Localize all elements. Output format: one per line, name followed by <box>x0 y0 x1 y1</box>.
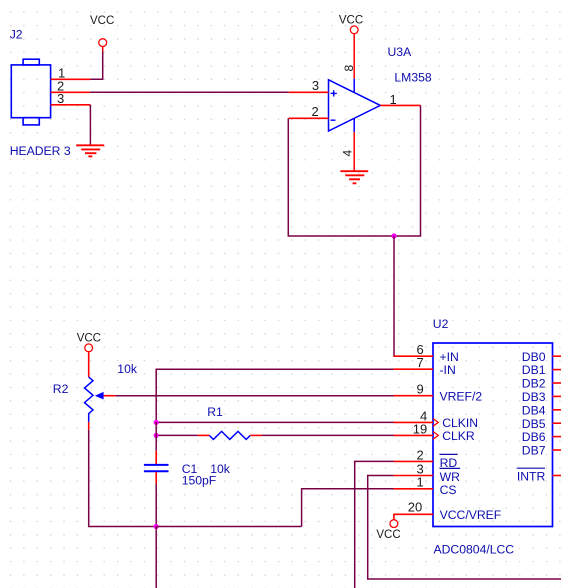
VCC power symbol at R2 <box>77 333 101 352</box>
capacitor C1 <box>144 451 169 484</box>
svg-text:CLKR: CLKR <box>442 429 475 443</box>
svg-text:DB1: DB1 <box>522 363 546 377</box>
svg-text:4: 4 <box>341 150 355 157</box>
svg-text:CLKIN: CLKIN <box>442 416 478 430</box>
wire WR net <box>368 476 561 580</box>
U3A pin 3 stub <box>289 91 329 93</box>
J2 pin 3 stub <box>51 104 91 106</box>
wire -IN net <box>156 369 393 422</box>
svg-text:DB3: DB3 <box>522 390 546 404</box>
ground symbol at J2 <box>76 145 104 156</box>
wire J2 pin2 to U3A pin3 <box>90 91 289 93</box>
U2 DB4 pin stub <box>553 409 561 411</box>
svg-text:ADC0804/LCC: ADC0804/LCC <box>434 542 515 556</box>
IC U2 body <box>433 343 553 527</box>
wire CS net <box>302 489 394 527</box>
svg-text:DB5: DB5 <box>522 417 546 431</box>
svg-text:8: 8 <box>342 65 356 72</box>
svg-text:VREF/2: VREF/2 <box>440 389 483 403</box>
svg-text:VCC: VCC <box>90 15 114 27</box>
svg-text:U2: U2 <box>433 317 449 331</box>
U2 pin 20 VCC/VREF stub <box>394 514 433 519</box>
ground symbol at U3A pin 4 <box>340 171 368 183</box>
svg-text:9: 9 <box>417 382 424 397</box>
svg-text:3: 3 <box>312 78 319 93</box>
svg-text:20: 20 <box>408 499 422 514</box>
svg-text:R2: R2 <box>53 382 69 396</box>
svg-text:DB7: DB7 <box>522 444 546 458</box>
U2 INTR pin stub <box>553 475 561 477</box>
svg-text:3: 3 <box>57 91 64 106</box>
svg-text:U3A: U3A <box>388 45 413 59</box>
svg-text:RD: RD <box>440 456 458 470</box>
svg-text:DB6: DB6 <box>522 430 546 444</box>
wire line A to bottom edge <box>155 527 157 588</box>
U3A minus mark <box>331 119 336 121</box>
U2 pin 6 +IN stub <box>394 355 434 357</box>
U2 DB1 pin stub <box>553 369 561 371</box>
wire J2 pin3 to ground <box>89 105 91 145</box>
U2 pin 2 RD stub <box>394 460 434 462</box>
svg-text:LM358: LM358 <box>394 71 431 85</box>
wire C1 bottom to bottom rail <box>155 484 157 527</box>
svg-text:VCC: VCC <box>376 529 400 541</box>
wire J2 pin1 to VCC <box>90 52 102 80</box>
wire R2 bottom to bottom rail <box>89 430 157 527</box>
U2 pin 19 CLKR stub <box>394 434 434 436</box>
wire CLKIN net <box>156 421 393 423</box>
U3A plus mark <box>331 90 337 96</box>
wire U3A feedback loop (pin2 to pin1) <box>288 105 420 236</box>
junction at feedback/ADC +IN <box>391 233 396 238</box>
svg-text:1: 1 <box>417 475 424 490</box>
wire junction down to U2 +IN <box>394 236 396 356</box>
junction bottom rail / line A <box>154 524 159 529</box>
svg-text:2: 2 <box>417 447 424 462</box>
svg-text:VCC: VCC <box>77 333 101 345</box>
U2 DB3 pin stub <box>553 395 561 397</box>
junction CLKR on line A <box>154 433 159 438</box>
U2 DB0 pin stub <box>553 355 561 357</box>
J2 pin 2 stub <box>51 91 90 93</box>
resistor R1 <box>198 431 262 439</box>
connector J2 body <box>11 59 50 125</box>
op-amp U3A triangle <box>329 80 381 131</box>
svg-text:INTR: INTR <box>517 470 546 484</box>
U2 pin 19 clock mark <box>433 432 438 440</box>
svg-text:10k: 10k <box>117 362 138 376</box>
potentiometer R2 <box>85 352 116 430</box>
svg-text:DB4: DB4 <box>522 403 546 417</box>
junction CLKIN on line A <box>154 420 159 425</box>
U2 DB6 pin stub <box>553 436 561 438</box>
svg-text:DB2: DB2 <box>522 377 546 391</box>
svg-text:WR: WR <box>440 470 461 484</box>
vertical net line A (C1 branch) <box>155 422 157 451</box>
svg-text:DB0: DB0 <box>522 350 546 364</box>
U2 DB5 pin stub <box>553 422 561 424</box>
U2 pin 3 WR stub <box>394 475 434 477</box>
wire bottom rail <box>156 526 301 528</box>
svg-text:7: 7 <box>417 355 424 370</box>
svg-text:CS: CS <box>440 483 457 497</box>
wire CLKR right segment <box>262 434 394 436</box>
op-amp U3A pin 8 (V+) <box>353 34 355 79</box>
U2 DB2 pin stub <box>553 382 561 384</box>
U3A pin 4 (V-) <box>353 118 355 132</box>
VCC power symbol at U3A pin 8 <box>339 15 363 34</box>
svg-text:HEADER 3: HEADER 3 <box>10 144 71 158</box>
U3A pin 2 stub <box>289 117 329 119</box>
svg-text:150pF: 150pF <box>182 474 217 488</box>
U2 pin 9 VREF/2 stub <box>394 395 434 397</box>
U2 pin 4 clock mark <box>433 419 438 427</box>
svg-text:2: 2 <box>312 104 319 119</box>
wire RD net <box>355 461 394 588</box>
U2 pin 1 CS stub <box>394 488 434 490</box>
svg-text:VCC/VREF: VCC/VREF <box>440 508 502 522</box>
U3A pin 1 stub <box>380 104 420 106</box>
svg-text:J2: J2 <box>10 28 23 42</box>
U2 pin 7 -IN stub <box>394 368 434 370</box>
svg-text:VCC: VCC <box>339 15 363 27</box>
J2 pin 1 stub <box>51 78 91 80</box>
svg-text:+IN: +IN <box>440 350 459 364</box>
svg-text:1: 1 <box>390 92 397 107</box>
VCC power symbol at U2 pin 20 <box>376 520 400 541</box>
VCC power symbol at J2 pin 1 <box>90 15 114 52</box>
U2 pin 4 CLKIN stub <box>394 421 434 423</box>
svg-text:-IN: -IN <box>440 363 456 377</box>
wire R2 wiper to VREF/2 <box>115 395 393 397</box>
wire CLKR left segment <box>156 434 198 436</box>
svg-text:R1: R1 <box>207 405 223 419</box>
U2 DB7 pin stub <box>553 449 561 451</box>
svg-text:19: 19 <box>413 421 427 436</box>
R2 wiper arrow <box>95 392 104 400</box>
